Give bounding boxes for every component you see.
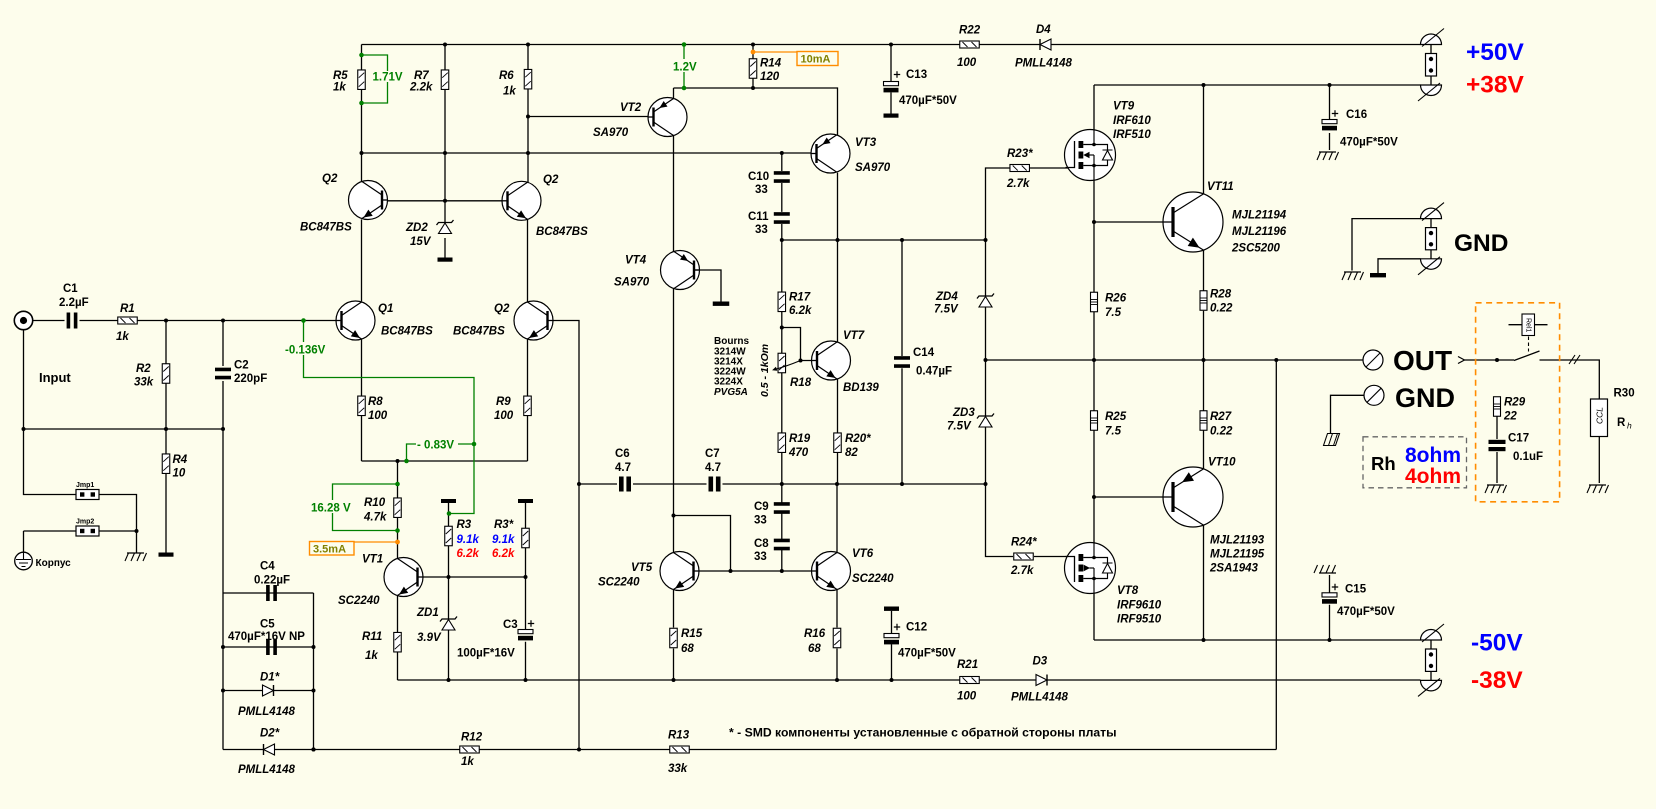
- label C7: [705, 448, 720, 460]
- wire R3 column: [448, 503, 450, 680]
- chassis ground C17: [1485, 485, 1507, 493]
- label VT10 type1: [1210, 535, 1265, 547]
- svg-text:C9: C9: [754, 501, 769, 513]
- wire R3*-C3 column: [525, 503, 527, 680]
- svg-text:2.7k: 2.7k: [1010, 565, 1034, 577]
- node C5 left: [221, 645, 225, 649]
- label R25: [1105, 411, 1127, 423]
- svg-text:6.2k: 6.2k: [789, 305, 812, 317]
- svg-text:VT9: VT9: [1113, 101, 1135, 113]
- label R9 value: [494, 410, 514, 422]
- node rail429 C2: [221, 427, 225, 431]
- wire C13 stem: [890, 45, 892, 114]
- node C13 rail: [889, 43, 893, 47]
- resistor R22: [960, 41, 980, 48]
- wire VT4-VT5 column: [673, 136, 675, 681]
- transistor VT3: [811, 134, 850, 173]
- label Korpus: [36, 558, 72, 569]
- node C4C5 right2: [312, 689, 316, 693]
- resistor R26: [1091, 292, 1098, 312]
- wire VT4 emitter ground: [694, 270, 721, 302]
- trimmer R18: [772, 353, 800, 373]
- svg-text:R4: R4: [173, 454, 188, 466]
- label R4: [173, 454, 188, 466]
- svg-text:BD139: BD139: [843, 382, 879, 394]
- svg-text:R15: R15: [681, 628, 703, 640]
- svg-text:100: 100: [957, 57, 977, 69]
- node bottom rail D2col: [312, 748, 316, 752]
- svg-text:C17: C17: [1508, 433, 1529, 445]
- label ZD1 value: [417, 632, 442, 644]
- svg-text:3.5mA: 3.5mA: [313, 544, 346, 556]
- svg-text:470: 470: [788, 447, 809, 459]
- node D2 right: [312, 748, 316, 752]
- svg-text:Bourns: Bourns: [714, 336, 749, 347]
- svg-text:BC847BS: BC847BS: [453, 326, 505, 338]
- label R12: [461, 732, 483, 744]
- svg-text:100: 100: [494, 410, 514, 422]
- resistor R13: [670, 746, 690, 753]
- current probe 3.5mA: [310, 540, 400, 556]
- label R4 value: [173, 468, 186, 480]
- svg-text:1.2V: 1.2V: [673, 62, 697, 74]
- resistor R24*: [1014, 553, 1034, 560]
- transistor Q2 second: [502, 181, 541, 220]
- transistor VT7: [812, 341, 851, 380]
- svg-text:220pF: 220pF: [234, 373, 267, 385]
- svg-text:R19: R19: [789, 433, 811, 445]
- wire OUT row: [986, 359, 1364, 361]
- label C12 value: [898, 648, 956, 660]
- svg-text:Rel1: Rel1: [1525, 318, 1532, 333]
- svg-text:4.7k: 4.7k: [363, 512, 387, 524]
- node rail680 C3: [524, 678, 528, 682]
- capacitor C3: [518, 620, 534, 640]
- label R26 value: [1105, 307, 1122, 319]
- label SMD note: [729, 726, 1117, 740]
- capacitor C13: [884, 71, 901, 92]
- transistor Q1: [336, 301, 375, 340]
- label R27 value: [1210, 426, 1233, 438]
- node ZD3 c6row: [984, 482, 988, 486]
- label D4: [1036, 24, 1051, 36]
- resistor R27: [1200, 411, 1207, 431]
- label Bourns 3214X: [714, 357, 743, 368]
- label C11: [748, 211, 769, 223]
- current probe 10mA: [751, 50, 838, 66]
- diode D4: [1040, 39, 1051, 50]
- label R7: [414, 70, 429, 82]
- svg-text:MJL21194: MJL21194: [1232, 210, 1287, 222]
- label VT1 type: [338, 595, 380, 607]
- node C4C5 right1: [312, 645, 316, 649]
- label C10 value: [755, 184, 768, 196]
- svg-text:R1: R1: [120, 303, 135, 315]
- node rail680 R16: [835, 678, 839, 682]
- wire VT9 column: [1093, 85, 1095, 640]
- node VT5 collector loop: [672, 514, 676, 518]
- svg-text:3.9V: 3.9V: [417, 632, 442, 644]
- wire R5-Q2 column: [361, 45, 363, 462]
- svg-text:Q1: Q1: [378, 303, 393, 315]
- zener ZD3: [977, 414, 994, 428]
- label Q2 fourth type: [453, 326, 505, 338]
- node rail153 R6: [526, 151, 530, 155]
- svg-text:R3*: R3*: [494, 519, 514, 531]
- wire R8-R9 rail y=461: [362, 460, 528, 462]
- node R14 rail: [751, 43, 755, 47]
- label R8: [368, 396, 383, 408]
- wire input row: [33, 320, 336, 322]
- wire VT2 base: [528, 116, 654, 118]
- terminal +50V link: [1426, 45, 1437, 86]
- wire Q2 base to C6 node: [548, 321, 579, 750]
- svg-text:R27: R27: [1210, 411, 1232, 423]
- svg-text:+38V: +38V: [1466, 72, 1525, 99]
- node rail640 VT10: [1202, 638, 1206, 642]
- svg-text:BC847BS: BC847BS: [381, 326, 433, 338]
- svg-text:1k: 1k: [503, 86, 516, 98]
- svg-text:22: 22: [1503, 411, 1517, 423]
- svg-text:1.71V: 1.71V: [373, 72, 403, 84]
- node R10 top: [396, 459, 400, 463]
- svg-text:0.47µF: 0.47µF: [916, 366, 952, 378]
- svg-text:h: h: [1627, 421, 1632, 431]
- svg-text:R17: R17: [789, 292, 811, 304]
- label R27: [1210, 411, 1232, 423]
- svg-text:R26: R26: [1105, 293, 1127, 305]
- label R16: [804, 628, 826, 640]
- label VT5 type: [598, 577, 640, 589]
- voltage probe 1.2V: [672, 45, 700, 91]
- label R6 value: [503, 86, 516, 98]
- label C4 value: [254, 575, 290, 587]
- svg-text:PVG5A: PVG5A: [714, 387, 748, 398]
- diode D1: [263, 685, 274, 696]
- label R5 value: [333, 82, 346, 94]
- capacitor C9: [774, 502, 790, 514]
- chassis ground R30: [1587, 485, 1609, 493]
- label R29 value: [1503, 411, 1517, 423]
- svg-text:1k: 1k: [461, 756, 474, 768]
- label R25 value: [1105, 426, 1122, 438]
- voltage probe -0.136V: [284, 318, 476, 516]
- wire VT2-VT3 emitter rail y=88: [674, 88, 838, 136]
- svg-text:IRF9510: IRF9510: [1117, 614, 1162, 626]
- label R10 value: [363, 512, 387, 524]
- svg-text:Jmp1: Jmp1: [76, 482, 94, 489]
- svg-text:R14: R14: [760, 58, 782, 70]
- svg-text:Q2: Q2: [322, 173, 338, 185]
- node switch R29: [1495, 358, 1499, 362]
- wire output rail y=680: [398, 679, 1421, 681]
- svg-text:0.22: 0.22: [1210, 303, 1233, 315]
- node rail240 C11: [780, 238, 784, 242]
- box relay dashed: [1476, 303, 1560, 502]
- svg-text:R24*: R24*: [1011, 537, 1037, 549]
- label Q2 fourth: [494, 303, 510, 315]
- label Bourns 3224W: [714, 367, 746, 378]
- label C7 value: [705, 462, 721, 474]
- terminal -50V dome top: [1421, 624, 1445, 642]
- svg-text:PMLL4148: PMLL4148: [238, 706, 295, 718]
- svg-text:MJL21195: MJL21195: [1210, 549, 1265, 561]
- label R11 value: [365, 650, 378, 662]
- label VT8: [1117, 585, 1139, 597]
- wire VT10 base row: [1094, 496, 1172, 498]
- label Input: [39, 370, 71, 385]
- wire C12 stub: [891, 611, 893, 680]
- svg-text:R13: R13: [668, 730, 690, 742]
- node rail429 left: [22, 427, 26, 431]
- label C14: [913, 347, 935, 359]
- svg-text:C6: C6: [615, 448, 630, 460]
- label R3* blue: [492, 534, 515, 546]
- relay coil Rel1: [1509, 314, 1548, 336]
- wire +50V second rail y=85: [1094, 84, 1421, 86]
- wire R23 gate feed: [986, 168, 1069, 240]
- ground bar R4: [159, 553, 174, 557]
- node rail153 R5: [360, 151, 364, 155]
- svg-text:33: 33: [755, 224, 768, 236]
- label OUT GND: [1395, 383, 1455, 413]
- node R7 rail: [443, 43, 447, 47]
- svg-text:GND: GND: [1454, 230, 1508, 257]
- wire trimmer tap: [782, 328, 817, 361]
- label R3 blue: [457, 534, 480, 546]
- svg-text:GND: GND: [1395, 383, 1455, 413]
- node bottom rail C6col: [577, 748, 581, 752]
- transistor VT6: [812, 552, 851, 591]
- svg-text:* - SMD компоненты установленн: * - SMD компоненты установленные с обрат…: [729, 726, 1117, 740]
- svg-text:R12: R12: [461, 732, 483, 744]
- svg-text:470µF*50V: 470µF*50V: [899, 95, 957, 107]
- label OUT: [1393, 345, 1452, 376]
- svg-text:SC2240: SC2240: [338, 595, 380, 607]
- label VT3: [855, 137, 877, 149]
- svg-text:R28: R28: [1210, 289, 1232, 301]
- resistor R14: [749, 59, 757, 79]
- wire -50V rail y=640: [1094, 639, 1421, 641]
- svg-text:BC847BS: BC847BS: [536, 226, 588, 238]
- svg-text:PMLL4148: PMLL4148: [238, 764, 295, 776]
- label R20 value: [845, 447, 858, 459]
- label R3 red: [457, 548, 480, 560]
- svg-text:C2: C2: [234, 360, 249, 372]
- wire +50V top rail: [362, 44, 1421, 46]
- svg-text:R11: R11: [362, 631, 382, 643]
- label R19: [789, 433, 811, 445]
- wire Q2 base pair: [382, 200, 508, 202]
- wire C14 column: [901, 240, 903, 484]
- svg-text:33k: 33k: [668, 763, 688, 775]
- svg-text:R22: R22: [959, 25, 981, 37]
- label VT10: [1208, 457, 1236, 469]
- zener ZD2: [437, 220, 454, 234]
- svg-text:D4: D4: [1036, 24, 1051, 36]
- node VT5 base join: [729, 569, 733, 573]
- label VT6: [852, 548, 874, 560]
- capacitor C15: [1322, 584, 1338, 604]
- label VT5: [631, 562, 653, 574]
- svg-text:D1*: D1*: [260, 672, 280, 684]
- label R24*: [1011, 537, 1037, 549]
- svg-text:6.2k: 6.2k: [457, 548, 480, 560]
- svg-text:33: 33: [754, 515, 767, 527]
- chassis ground jumpers: [125, 553, 147, 561]
- mosfet VT9: [1065, 130, 1116, 181]
- label Bourns: [714, 336, 749, 347]
- resistor R21: [960, 677, 980, 684]
- label Q2 first: [322, 173, 338, 185]
- label -38V: [1471, 667, 1523, 694]
- svg-text:C8: C8: [754, 538, 769, 550]
- svg-text:SA970: SA970: [855, 162, 891, 174]
- wire VT11 column: [1203, 85, 1205, 360]
- wire switch to R30: [1540, 360, 1600, 399]
- wire C10-C11-R17-R18-R19 column: [781, 153, 783, 571]
- label R22 value: [957, 57, 977, 69]
- label Q2 second type: [536, 226, 588, 238]
- supply bar C12: [884, 607, 899, 611]
- label VT9: [1113, 101, 1135, 113]
- svg-text:VT11: VT11: [1207, 181, 1234, 193]
- svg-text:R20*: R20*: [845, 433, 871, 445]
- svg-text:7.5V: 7.5V: [934, 304, 959, 316]
- label R11: [362, 631, 382, 643]
- resistor R2: [162, 364, 170, 384]
- wire VT3-VT7 collector column: [837, 173, 839, 484]
- wire cascode rail y=153: [362, 152, 817, 154]
- node OUT R26: [1092, 358, 1096, 362]
- svg-text:C16: C16: [1346, 109, 1367, 121]
- label 4ohm: [1405, 465, 1461, 488]
- svg-text:R2: R2: [136, 363, 151, 375]
- svg-text:R6: R6: [499, 70, 514, 82]
- label C1: [63, 283, 78, 295]
- svg-text:6.2k: 6.2k: [492, 548, 515, 560]
- svg-text:120: 120: [760, 71, 780, 83]
- svg-text:470µF*16V NP: 470µF*16V NP: [228, 631, 305, 643]
- node rail429 R4: [164, 427, 168, 431]
- svg-text:10: 10: [173, 468, 186, 480]
- svg-text:R23*: R23*: [1007, 148, 1033, 160]
- node C6 row left: [577, 482, 581, 486]
- svg-text:MJL21196: MJL21196: [1232, 226, 1287, 238]
- label ZD3 value: [947, 421, 972, 433]
- label R1: [120, 303, 135, 315]
- resistor R29: [1494, 397, 1501, 417]
- label R23*: [1007, 148, 1033, 160]
- label C12: [906, 622, 927, 634]
- svg-text:R10: R10: [364, 497, 386, 509]
- svg-text:33: 33: [754, 551, 767, 563]
- svg-text:C5: C5: [260, 619, 275, 631]
- label R14: [760, 58, 782, 70]
- svg-text:R5: R5: [333, 70, 348, 82]
- svg-text:SA970: SA970: [593, 127, 629, 139]
- svg-text:VT10: VT10: [1208, 457, 1236, 469]
- svg-text:R18: R18: [790, 377, 812, 389]
- svg-text:68: 68: [808, 643, 821, 655]
- terminal OUT GND: [1364, 385, 1384, 405]
- svg-text:33k: 33k: [134, 377, 154, 389]
- ground bar GND term: [1370, 273, 1386, 277]
- resistor R3*: [522, 528, 530, 548]
- terminal OUT: [1363, 350, 1383, 370]
- label R5: [333, 70, 348, 82]
- label VT9 type2: [1113, 129, 1151, 141]
- node rail680 R15: [672, 678, 676, 682]
- capacitor C7: [709, 477, 721, 492]
- node VT1 base C3: [524, 575, 528, 579]
- svg-text:7.5: 7.5: [1105, 426, 1122, 438]
- node jumper join: [135, 529, 139, 533]
- chassis hatch ground OUT: [1324, 434, 1340, 446]
- svg-text:-0.136V: -0.136V: [285, 345, 326, 357]
- label C3: [503, 619, 518, 631]
- label VT6 type: [852, 573, 894, 585]
- svg-text:D3: D3: [1033, 656, 1048, 668]
- label R26: [1105, 293, 1127, 305]
- wire ZD4-ZD3 column: [986, 240, 1068, 557]
- svg-text:R9: R9: [496, 396, 511, 408]
- label C9: [754, 501, 769, 513]
- capacitor C16: [1322, 110, 1338, 130]
- node C10 rail153: [780, 151, 784, 155]
- label VT3 type: [855, 162, 891, 174]
- svg-text:+50V: +50V: [1466, 39, 1525, 66]
- resistor R5: [358, 70, 366, 90]
- label Rh: [1371, 453, 1396, 474]
- svg-text:10mA: 10mA: [801, 54, 831, 66]
- label R10: [364, 497, 386, 509]
- label VT11 type1: [1232, 210, 1287, 222]
- label R23 value: [1006, 178, 1030, 190]
- zener ZD1: [440, 617, 457, 631]
- svg-text:SA970: SA970: [614, 277, 650, 289]
- label C2 value: [234, 373, 267, 385]
- svg-text:ZD2: ZD2: [405, 222, 428, 234]
- node rail240 VT3: [836, 238, 840, 242]
- label GND terminal: [1454, 230, 1508, 257]
- label D4 value: [1015, 58, 1072, 70]
- earth symbol Korpus: [15, 552, 33, 570]
- label VT4 type: [614, 277, 650, 289]
- label +38V: [1466, 72, 1525, 99]
- voltage probe 16.28V: [310, 482, 400, 533]
- capacitor C12: [884, 624, 900, 645]
- transistor VT1: [384, 558, 423, 597]
- svg-text:82: 82: [845, 447, 858, 459]
- wire feedback drop: [1275, 360, 1277, 750]
- label VT2 type: [593, 127, 629, 139]
- chassis ground C15: [1314, 565, 1336, 573]
- label R28: [1210, 289, 1232, 301]
- label R15 value: [681, 643, 694, 655]
- wire R10-VT1 column: [397, 461, 399, 680]
- resistor R23*: [1010, 165, 1029, 172]
- svg-text:VT5: VT5: [631, 562, 653, 574]
- svg-text:IRF9610: IRF9610: [1117, 600, 1162, 612]
- svg-text:1k: 1k: [365, 650, 378, 662]
- wire R27-VT10 column: [1203, 360, 1205, 640]
- node rail640 C15: [1328, 638, 1332, 642]
- node rail240 C14: [900, 238, 904, 242]
- resistor R6: [524, 69, 532, 89]
- label C3 value: [457, 648, 515, 660]
- label C17 value: [1513, 451, 1543, 463]
